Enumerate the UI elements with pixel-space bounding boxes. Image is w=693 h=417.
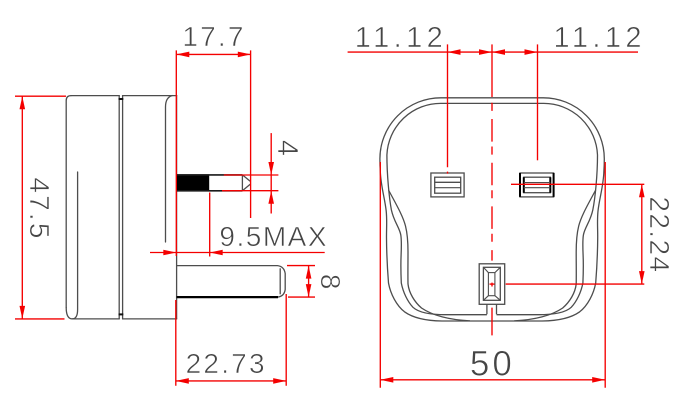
waist fold curve right	[514, 190, 596, 321]
dim 4 extensions	[222, 175, 278, 191]
right pin hole (heavy verticals)	[520, 173, 554, 197]
earth center tick	[490, 283, 495, 285]
8 arrows	[306, 266, 312, 279]
dim 47.5 line	[21, 96, 23, 319]
groove notch bridge bottom	[119, 313, 124, 315]
svg-text:9.5MAX: 9.5MAX	[219, 221, 328, 252]
svg-text:4: 4	[271, 140, 303, 156]
dim 4 line	[270, 133, 272, 213]
groove notch bridge top	[119, 98, 124, 100]
dim 17.7 extension right	[250, 50, 252, 218]
22.73 arrows	[176, 378, 189, 384]
11.12 arrows	[448, 49, 461, 55]
svg-text:11.12: 11.12	[355, 22, 447, 54]
47.5 arrows	[20, 96, 26, 109]
dim 11.12 extension at right hole	[537, 44, 539, 160]
dim 11.12 line	[348, 51, 638, 53]
cap bottom U	[66, 172, 77, 319]
waist fold curve left	[389, 190, 471, 321]
earth pin outline	[177, 175, 251, 191]
body top edge	[71, 95, 177, 97]
center line dash-dot	[491, 103, 493, 336]
svg-text:22.73: 22.73	[186, 348, 267, 379]
dim 22.73 extensions	[176, 294, 286, 386]
earth pin hole	[479, 264, 505, 315]
dim 9.5MAX line	[150, 252, 325, 254]
dim 50 extensions	[380, 162, 605, 388]
svg-text:11.12: 11.12	[553, 22, 645, 54]
dim 22.24 extension top (through right hole)	[511, 183, 644, 185]
earth pin chamfer tip	[242, 175, 250, 191]
svg-text:22.24: 22.24	[644, 196, 675, 273]
earth pin black sleeve	[177, 174, 210, 191]
9.5MAX arrows (outside)	[163, 250, 176, 256]
front view inner outline left	[387, 103, 487, 314]
body bottom edge	[72, 318, 176, 320]
22.24 arrows	[639, 184, 645, 197]
svg-text:50: 50	[470, 345, 515, 384]
svg-text:8: 8	[315, 274, 346, 290]
bottom pin end chamfer line	[279, 268, 281, 294]
dim 9.5MAX extension	[209, 193, 211, 257]
50 arrows	[380, 377, 393, 383]
dim 11.12 extension at left hole	[447, 44, 449, 173]
dim 47.5 extensions	[15, 96, 66, 319]
front view inner top edge	[441, 102, 544, 104]
bottom pin heavy lower edge	[177, 296, 278, 298]
groove seam line left	[118, 96, 120, 319]
bottom pin (line pin)	[177, 266, 286, 298]
groove seam line right	[122, 96, 124, 319]
body left edge with top corner	[66, 96, 71, 308]
4 arrows (outside)	[268, 162, 274, 175]
svg-text:47.5: 47.5	[24, 177, 55, 240]
dim 50 line	[380, 379, 605, 381]
svg-text:17.7: 17.7	[182, 21, 245, 52]
dim 17.7 line	[176, 53, 251, 55]
left pin hole	[431, 173, 464, 197]
front view outer outline	[380, 98, 604, 321]
front view inner outline right	[497, 103, 598, 314]
17.7 arrows	[176, 52, 189, 58]
body right (front face) edge	[176, 96, 178, 319]
earth slot channel legs	[487, 304, 497, 314]
inner face line top-right	[166, 96, 173, 242]
dim 22.73 line	[176, 380, 286, 382]
dim 8 line	[308, 266, 310, 298]
center line solid top	[491, 44, 493, 97]
red arrowheads	[20, 49, 645, 383]
dim 22.24 extension bottom (from earth hole)	[506, 283, 645, 285]
dim 8 extensions	[287, 266, 315, 298]
dim 17.7 extension left	[175, 50, 177, 256]
dim 22.24 line	[641, 184, 643, 284]
